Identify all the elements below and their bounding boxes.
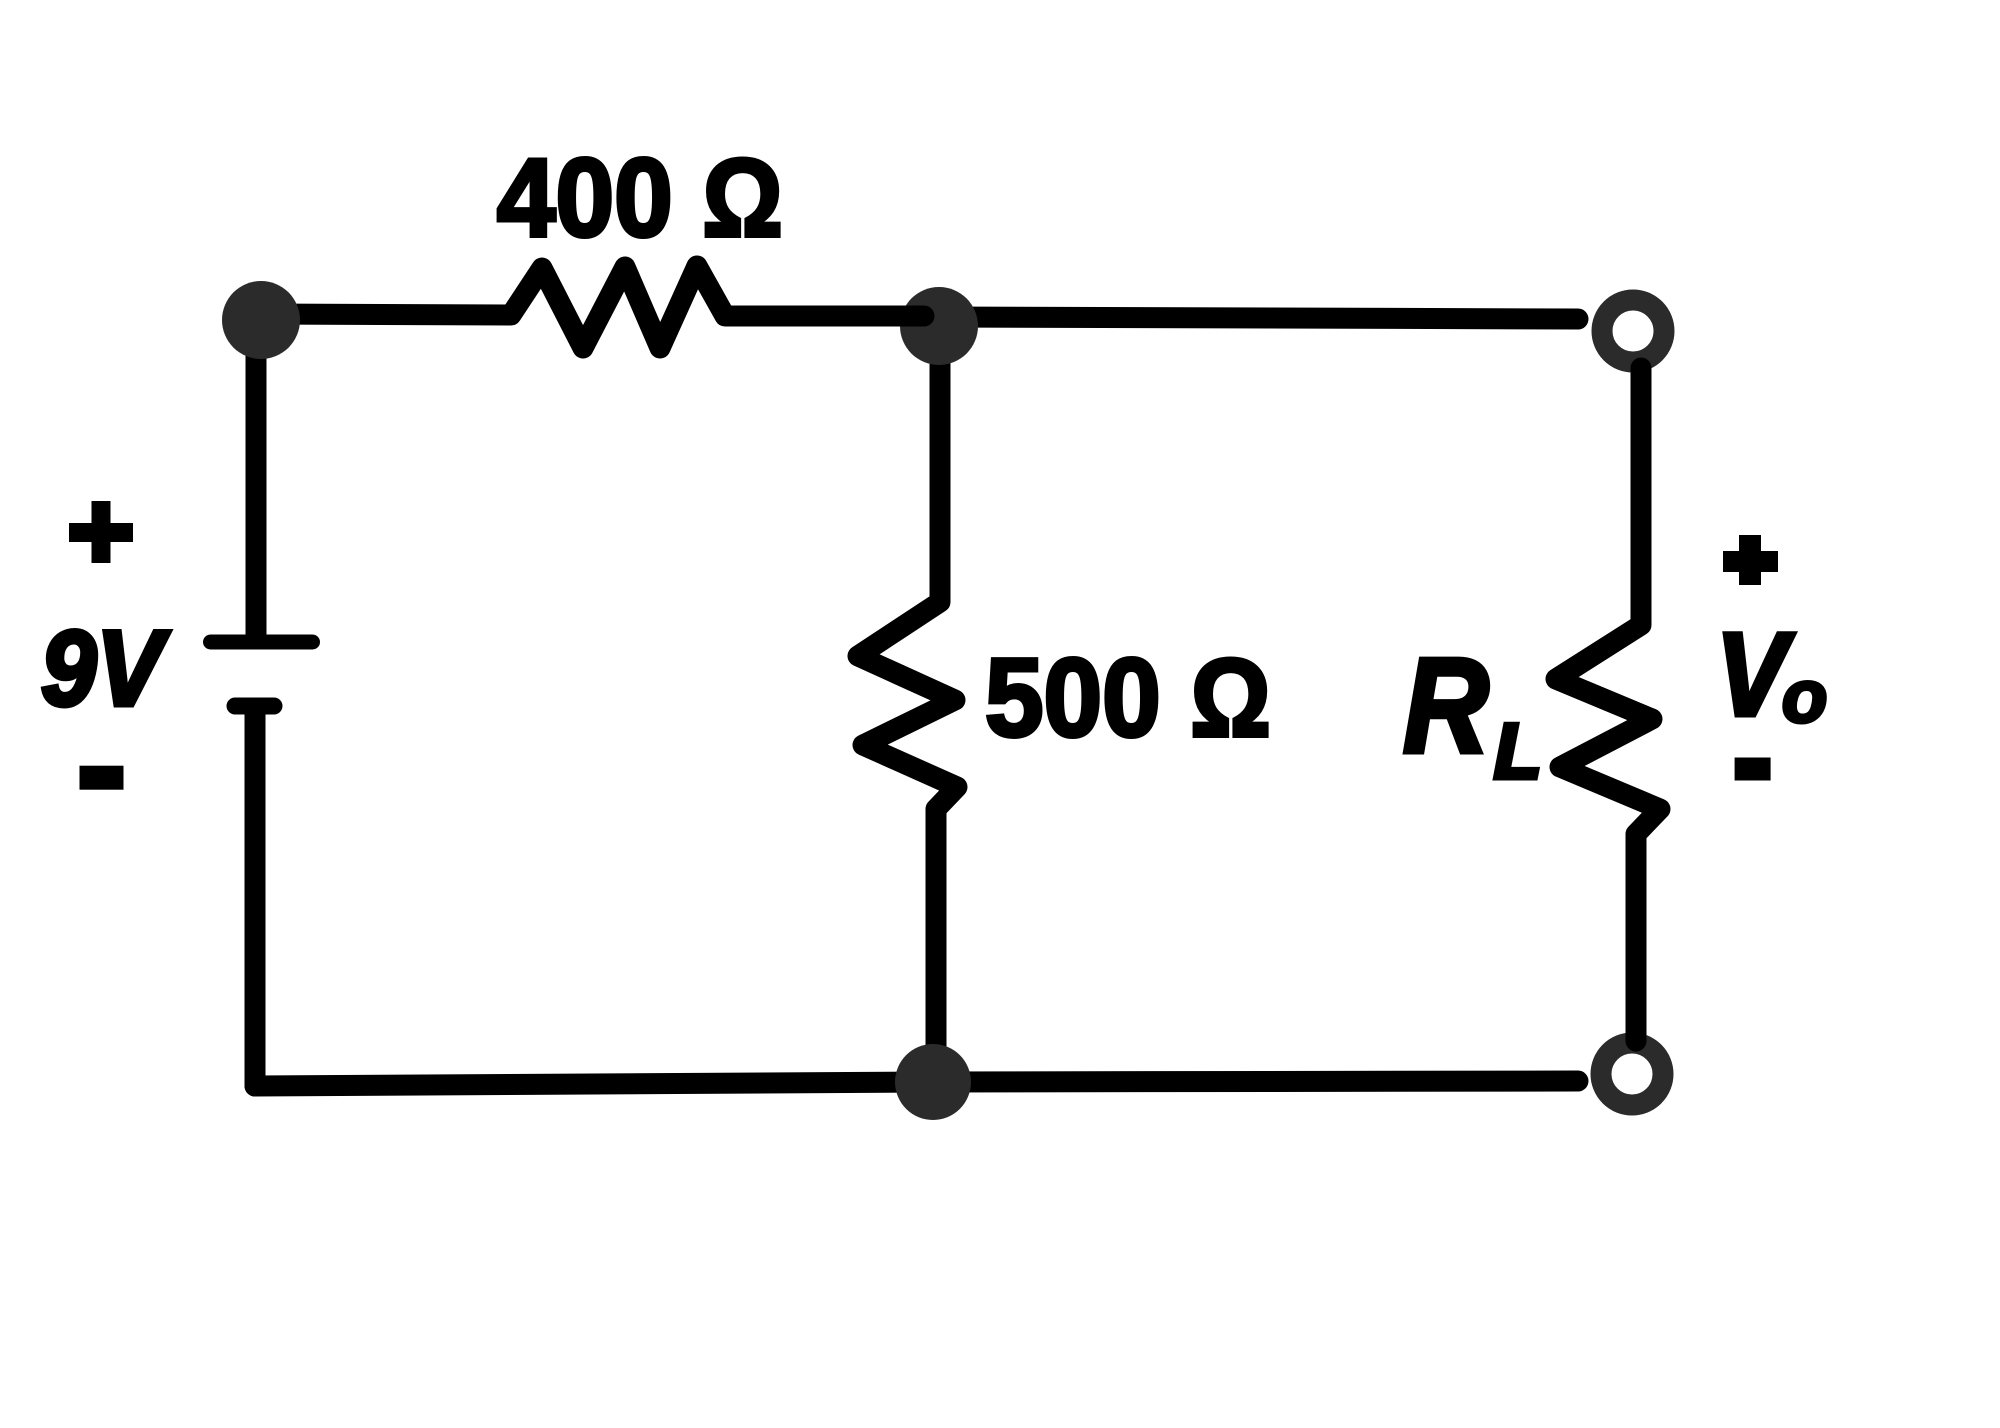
svg-text:9V: 9V (41, 608, 170, 728)
svg-text:R: R (1403, 630, 1489, 781)
svg-text:L: L (1494, 707, 1542, 795)
svg-text:500 Ω: 500 Ω (985, 636, 1271, 760)
svg-text:o: o (1782, 655, 1827, 738)
svg-text:400 Ω: 400 Ω (497, 136, 783, 260)
